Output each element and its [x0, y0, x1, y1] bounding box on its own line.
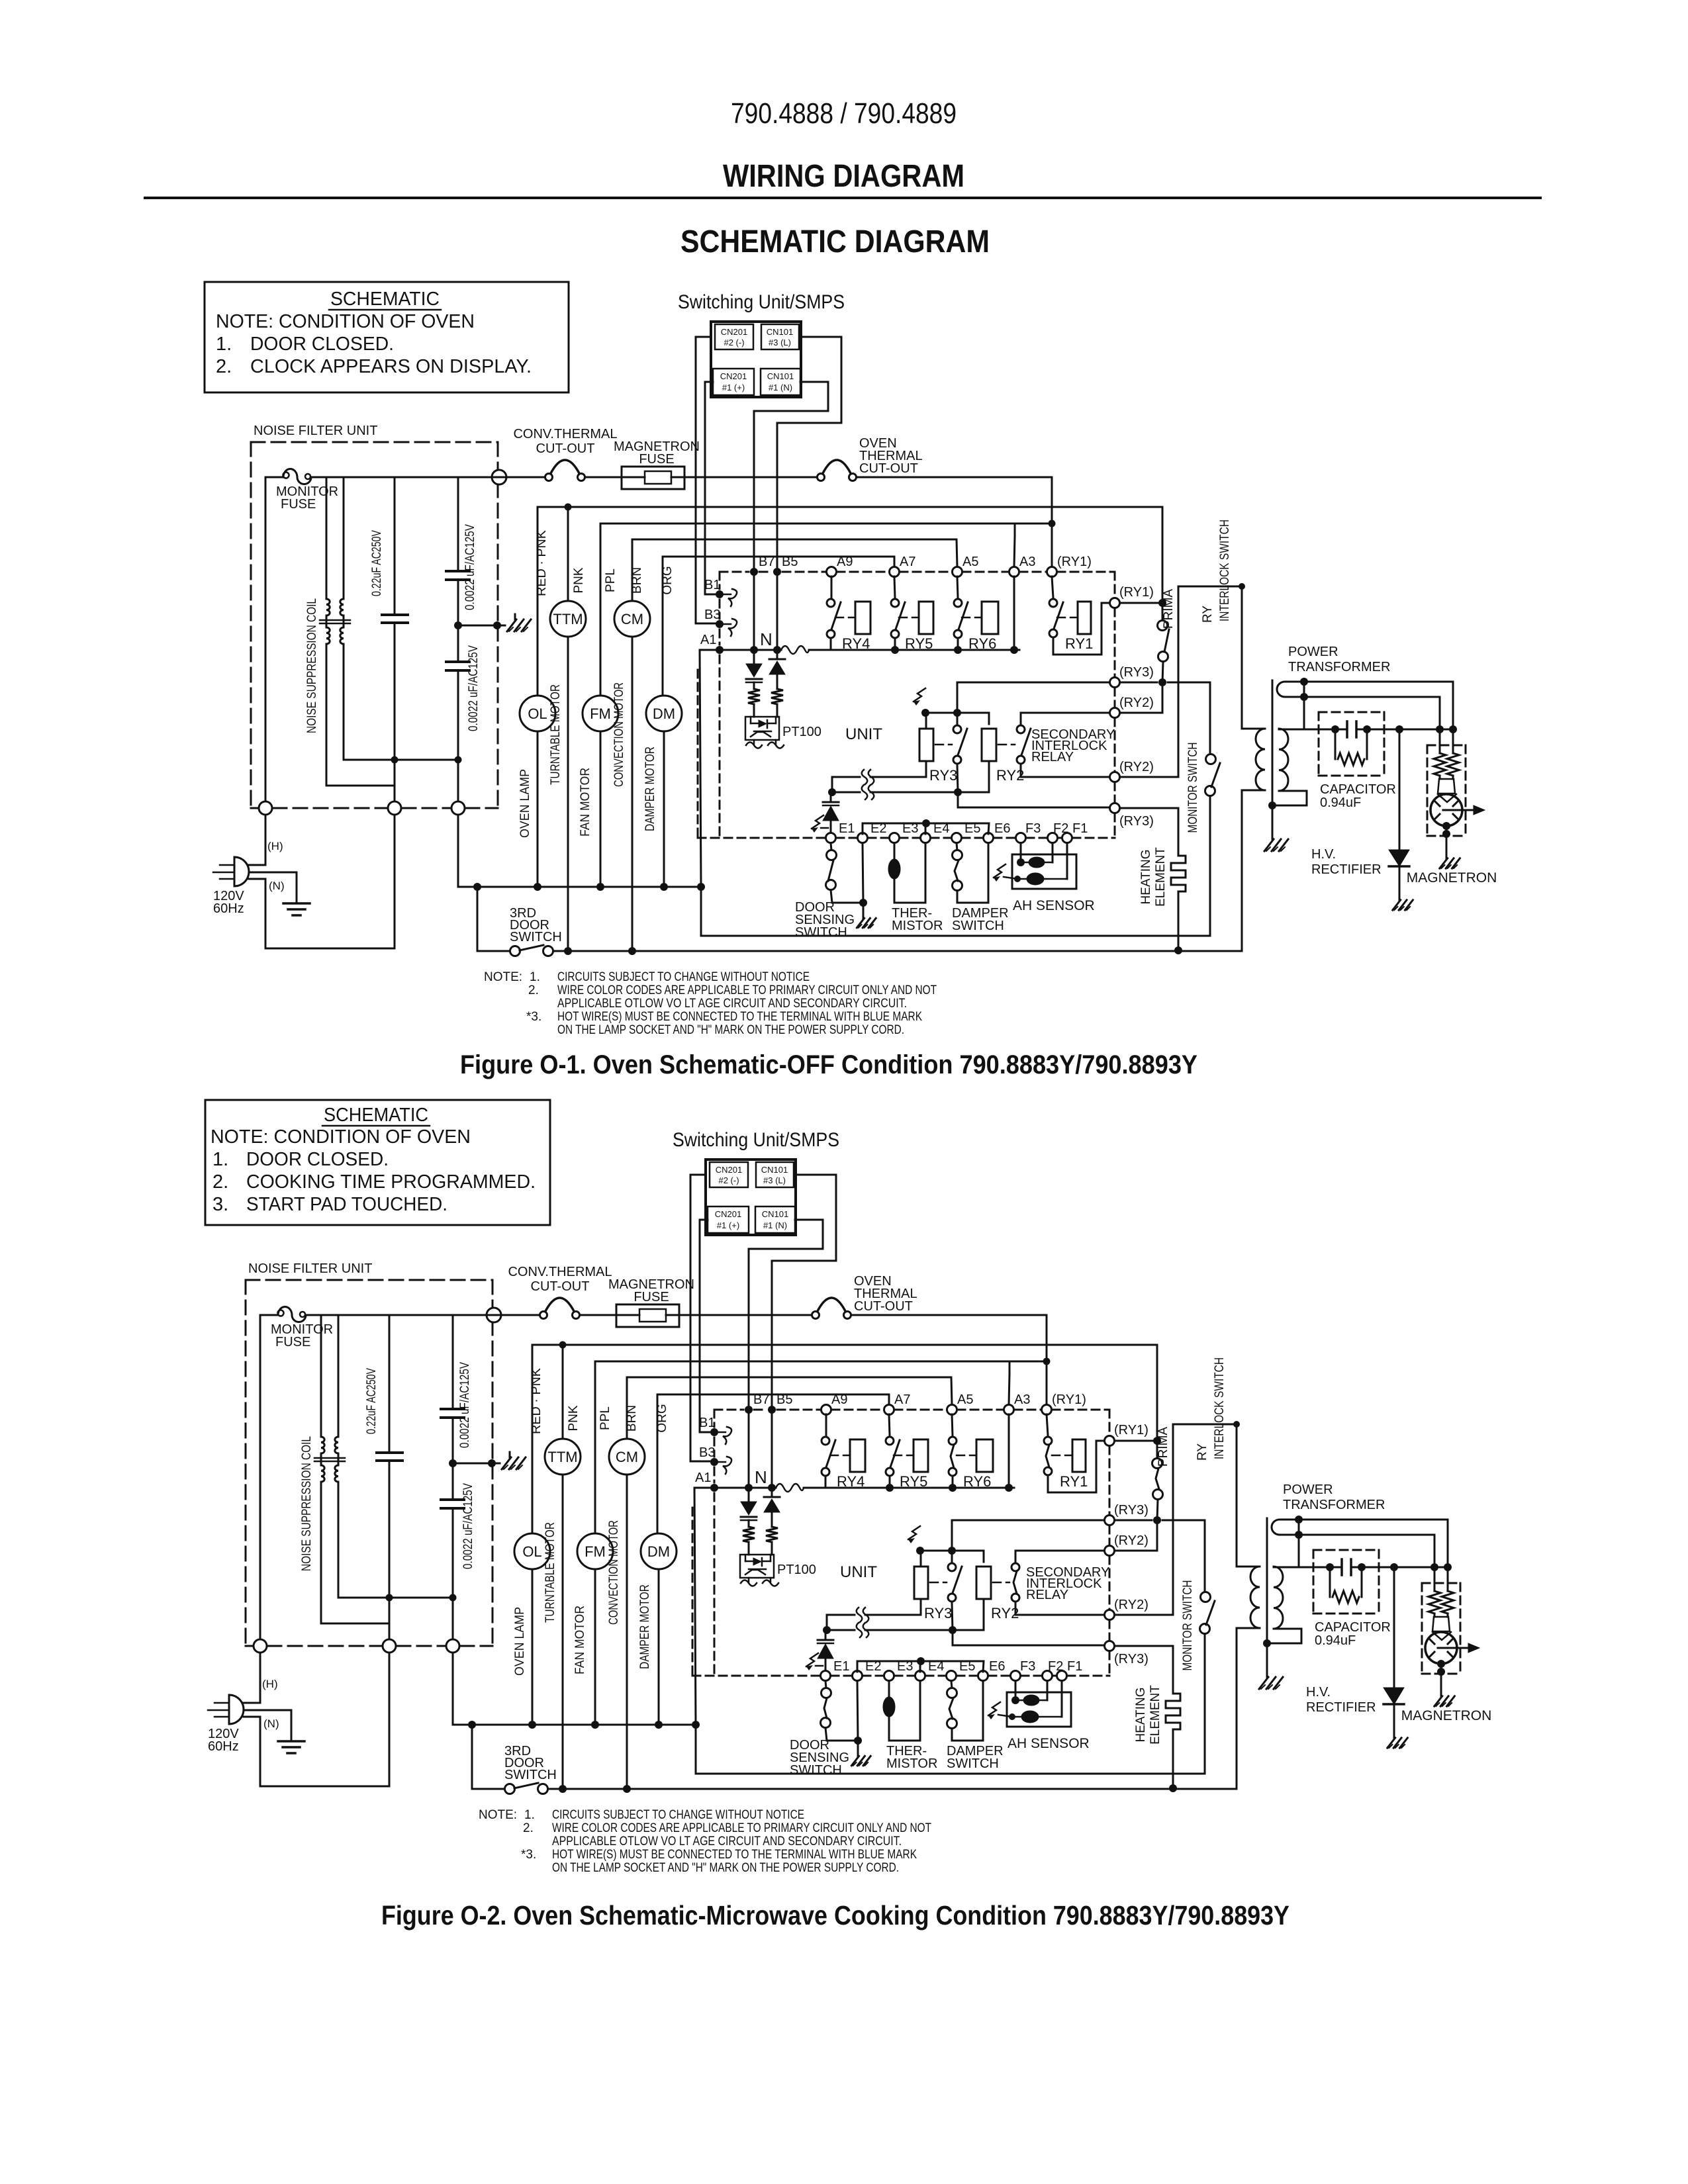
- wire door sensing to ground node: [825, 1728, 858, 1741]
- connector CN101 #1(N): [755, 1206, 795, 1233]
- junction hairpin taps: [1300, 678, 1308, 729]
- label RY2: [996, 767, 1024, 784]
- svg-text:SCHEMATIC: SCHEMATIC: [324, 1105, 428, 1126]
- primary interlock switch: [1152, 1459, 1163, 1500]
- power plug P1: [208, 1695, 260, 1724]
- svg-text:RED · PNK: RED · PNK: [535, 530, 549, 596]
- label AH SENSOR: [1008, 1736, 1090, 1751]
- wire RY3 coil top lead: [920, 1551, 922, 1567]
- label POWER TRANSFORMER: [1283, 1482, 1385, 1512]
- wire bottom bus y1340: [458, 886, 701, 888]
- label OVEN LAMP: [513, 1607, 527, 1676]
- label DAMPER SWITCH: [947, 1744, 1004, 1771]
- conv thermal cut-out S1: [540, 1298, 580, 1319]
- svg-text:0.0022 uF/AC125V: 0.0022 uF/AC125V: [461, 1483, 475, 1569]
- terminal (RY3) upper: [1105, 1503, 1149, 1525]
- opto unit PT100: [745, 717, 779, 740]
- label INTERLOCK SWITCH: [1218, 520, 1232, 621]
- terminal E5: [952, 821, 981, 843]
- terminal circle noise filter bottom left: [259, 801, 272, 815]
- svg-text:PRIMA: PRIMA: [1162, 589, 1176, 629]
- wire E2 drop: [857, 1681, 858, 1741]
- wire SMPS right to B5: [777, 337, 841, 650]
- primary interlock switch: [1158, 621, 1168, 662]
- turntable motor TTM: [545, 1345, 581, 1789]
- svg-text:SCHEMATIC DIAGRAM: SCHEMATIC DIAGRAM: [680, 224, 990, 259]
- svg-text:B1: B1: [699, 1416, 715, 1430]
- chassis ground noise filter: [502, 1452, 526, 1469]
- label RED PNK: [535, 530, 549, 596]
- terminal F2: [1048, 821, 1069, 843]
- convection motor CM: [609, 1377, 645, 1789]
- svg-text:START PAD TOUCHED.: START PAD TOUCHED.: [246, 1194, 447, 1215]
- RY interlock box top: [1178, 583, 1245, 590]
- svg-text:FAN MOTOR: FAN MOTOR: [579, 768, 592, 837]
- svg-text:CONV.THERMAL: CONV.THERMAL: [508, 1265, 612, 1279]
- caption Figure O-1: [460, 1050, 1197, 1079]
- wire SMPS left to B3: [696, 337, 720, 623]
- svg-text:*3.: *3.: [521, 1848, 536, 1862]
- connector CN101 #1(N): [761, 369, 800, 395]
- wire A1 row y982: [700, 649, 1019, 651]
- wire HV bus y1102: [1274, 1567, 1448, 1569]
- terminal (RY1) top: [1047, 555, 1092, 577]
- svg-text:SWITCH: SWITCH: [790, 1763, 842, 1778]
- wire CN101#1 to B7: [754, 382, 828, 650]
- terminal B3: [699, 1445, 731, 1474]
- svg-text:OL: OL: [522, 1543, 541, 1560]
- wire door sensing to ground node: [831, 890, 863, 903]
- label TURNTABLE MOTOR: [543, 1522, 557, 1623]
- junction A1 column tap: [697, 883, 705, 891]
- capacitor 0.0022uF upper: [441, 1315, 464, 1463]
- label RY5: [900, 1473, 927, 1490]
- label RY4: [842, 635, 870, 652]
- svg-text:Switching Unit/SMPS: Switching Unit/SMPS: [673, 1129, 839, 1151]
- junction A3 row: [1005, 1484, 1013, 1492]
- svg-text:DM: DM: [653, 705, 675, 722]
- transformer primary winding: [1242, 729, 1265, 950]
- wire chassis tap: [458, 625, 505, 627]
- connector squiggle A1 row: [781, 646, 809, 654]
- junction N row B5: [773, 646, 781, 654]
- noise suppression coil T1: [314, 1315, 345, 1623]
- label MAGNETRON: [1407, 870, 1497, 886]
- wire PRIMA to (RY3) row: [1157, 1500, 1158, 1520]
- primary interlock blade: [1164, 629, 1169, 652]
- svg-text:N: N: [760, 629, 773, 649]
- svg-text:NOTE: CONDITION OF OVEN: NOTE: CONDITION OF OVEN: [216, 311, 475, 332]
- transformer primary winding: [1237, 1567, 1260, 1788]
- svg-text:A7: A7: [894, 1392, 910, 1407]
- terminal E3: [890, 821, 919, 843]
- wire (RY1) to PRIMA: [1115, 1440, 1157, 1442]
- page title WIRING DIAGRAM: [723, 159, 964, 194]
- svg-text:#3 (L): #3 (L): [763, 1175, 786, 1185]
- svg-text:RECTIFIER: RECTIFIER: [1311, 862, 1382, 877]
- capacitor 0.0022uF lower: [441, 1463, 464, 1639]
- junction RY3 riser-(RY2) row: [948, 1547, 956, 1555]
- svg-text:MISTOR: MISTOR: [892, 919, 943, 933]
- connector hooks under PT100: [741, 1578, 778, 1586]
- label RY4: [837, 1473, 865, 1490]
- svg-text:(RY2): (RY2): [1119, 760, 1154, 774]
- label AH SENSOR: [1013, 898, 1095, 913]
- label N: [755, 1467, 767, 1487]
- svg-text:RY: RY: [1201, 606, 1215, 623]
- caption Figure O-2: [381, 1900, 1289, 1931]
- label FAN MOTOR: [573, 1606, 587, 1674]
- magnetron tube V1: [1430, 794, 1485, 826]
- svg-text:2.: 2.: [212, 1171, 228, 1193]
- svg-text:INTERLOCK SWITCH: INTERLOCK SWITCH: [1218, 520, 1232, 621]
- label INTERLOCK SWITCH: [1213, 1357, 1227, 1459]
- terminal (RY1) right: [1110, 585, 1154, 608]
- junction cap chassis tap: [454, 621, 501, 629]
- monitor switch: [1200, 1592, 1211, 1634]
- svg-text:#1 (N): #1 (N): [763, 1220, 787, 1230]
- label RY1: [1065, 635, 1093, 652]
- capacitor 0.22uF AC250V: [382, 477, 408, 801]
- svg-text:NOTE: CONDITION OF OVEN: NOTE: CONDITION OF OVEN: [211, 1126, 471, 1148]
- junction AH sensor F3: [1017, 858, 1025, 866]
- svg-text:E6: E6: [989, 1659, 1005, 1674]
- svg-text:RELAY: RELAY: [1031, 750, 1074, 764]
- wire (RY3) lower to heating element: [1120, 808, 1178, 856]
- junction magnetron cathode: [1437, 1660, 1445, 1692]
- label 120V 60Hz: [208, 1727, 239, 1754]
- diode D3 above E1: [823, 792, 839, 833]
- spark arrow AH sensor: [994, 864, 1021, 882]
- switching unit SMPS connector block: [706, 1160, 796, 1235]
- svg-text:RY4: RY4: [837, 1473, 865, 1490]
- oven lamp OL: [514, 1345, 550, 1725]
- notes NOTE block: [479, 1808, 931, 1875]
- svg-text:TRANSFORMER: TRANSFORMER: [1288, 660, 1390, 674]
- damper switch: [953, 843, 989, 903]
- terminal E2: [858, 821, 887, 843]
- horizontal rule: [145, 197, 1540, 199]
- 3rd door switch: [472, 1783, 1237, 1794]
- wire PRIMA to (RY2) row: [1115, 1520, 1157, 1551]
- wire (RY3) lower to heating element: [1115, 1646, 1173, 1694]
- wire top bus L1: [265, 477, 1052, 478]
- relay contact RY4: [821, 1414, 849, 1488]
- relay contact RY1: [1049, 576, 1076, 637]
- label THER-MISTOR: [886, 1744, 937, 1771]
- svg-text:CN201: CN201: [716, 1165, 742, 1175]
- wire PRIMA column drop: [1156, 1345, 1158, 1458]
- wire A1 drop left: [700, 650, 701, 887]
- transformer filament hairpin: [1272, 1520, 1448, 1535]
- connector CN201 #1(+): [708, 1206, 749, 1233]
- svg-text:PT100: PT100: [782, 725, 821, 739]
- monitor switch blade: [1206, 1601, 1215, 1625]
- chassis ground door sensing: [857, 903, 876, 928]
- chassis ground magnetron: [1434, 1692, 1455, 1706]
- wire cap2 to bottom bus: [453, 1653, 472, 1725]
- diode D1 (B7 leg): [741, 1488, 757, 1527]
- svg-text:RY4: RY4: [842, 635, 870, 652]
- relay coil RY2: [982, 729, 996, 761]
- terminal circle noise filter bottom right: [446, 1639, 459, 1653]
- wire bottom left loop: [265, 815, 395, 948]
- wire bottom left loop: [260, 1653, 389, 1786]
- wire left mains vertical: [265, 477, 267, 948]
- transformer filament hairpin: [1277, 682, 1453, 697]
- spark arrow at E1: [812, 815, 828, 833]
- diode D1 (B7 leg): [746, 650, 762, 689]
- label OVEN LAMP: [518, 769, 532, 838]
- terminal A1: [700, 633, 724, 654]
- AH sensor element upper: [1021, 843, 1053, 868]
- junction RY6 row: [949, 1484, 957, 1492]
- earth ground plug: [278, 1741, 305, 1753]
- junction OL tap: [534, 883, 541, 891]
- label UNIT: [845, 725, 882, 743]
- terminal A7: [884, 1392, 911, 1415]
- junction RY3 coil top: [921, 709, 929, 717]
- magnetron fuse F2: [622, 467, 684, 489]
- terminal (RY1) right: [1105, 1423, 1149, 1446]
- terminal B1: [704, 578, 737, 606]
- wire chassis tap: [453, 1463, 500, 1465]
- AH sensor box: [1012, 854, 1076, 889]
- svg-text:PPL: PPL: [604, 569, 618, 592]
- wire bus fan motor y791: [600, 523, 1052, 525]
- svg-text:MAGNETRON: MAGNETRON: [1407, 870, 1497, 886]
- diode D2 (B5 leg): [769, 650, 785, 689]
- label TURNTABLE MOTOR: [549, 684, 563, 785]
- svg-text:E1: E1: [839, 821, 855, 836]
- noise filter unit dashed box: [251, 442, 498, 808]
- label SECONDARY INTERLOCK RELAY: [1031, 727, 1115, 764]
- svg-text:1.: 1.: [216, 334, 232, 355]
- chassis ground transformer: [1264, 834, 1288, 851]
- label DOOR SENSING SWITCH: [795, 900, 855, 940]
- label SECONDARY INTERLOCK RELAY: [1026, 1565, 1109, 1602]
- unit boundary dashed secondary left: [697, 670, 699, 838]
- svg-text:SWITCH: SWITCH: [947, 1756, 999, 1771]
- svg-text:WIRING DIAGRAM: WIRING DIAGRAM: [723, 159, 964, 194]
- svg-text:DOOR CLOSED.: DOOR CLOSED.: [250, 334, 394, 355]
- wire unit row y1197 with break: [832, 761, 989, 792]
- unit boundary dashed top B7-B5-A9-A7-A5-A3: [714, 1409, 1109, 1411]
- page header model numbers: [731, 97, 957, 130]
- svg-text:F3: F3: [1025, 821, 1041, 836]
- junction cap2 bottom: [455, 756, 462, 764]
- svg-text:#1 (+): #1 (+): [722, 383, 745, 392]
- junction N row B7: [745, 1484, 753, 1492]
- svg-text:A1: A1: [700, 633, 716, 647]
- terminal A3: [1004, 1392, 1031, 1415]
- relay coil RY6: [982, 602, 998, 634]
- wire (RY2) row right piece: [1021, 713, 1109, 724]
- terminal E6: [984, 821, 1011, 843]
- chassis ground HV rectifier: [1393, 895, 1413, 910]
- svg-text:(RY2): (RY2): [1119, 696, 1154, 710]
- junction FM tap: [591, 1721, 599, 1729]
- magnetron filament: [1434, 682, 1459, 802]
- chassis ground magnetron: [1440, 854, 1460, 868]
- wire bus oven lamp y766: [532, 1344, 1157, 1346]
- label ORG: [661, 566, 675, 594]
- svg-text:ORG: ORG: [655, 1404, 669, 1432]
- junction door sensing-E2: [859, 899, 867, 907]
- junction PRIMA-(RY3): [1153, 1516, 1161, 1524]
- junction 3rd-door tap: [473, 883, 481, 891]
- terminal B7: [750, 555, 774, 576]
- wire RY1 loop to (RY1) contact: [1048, 1441, 1104, 1492]
- svg-text:CN201: CN201: [720, 371, 747, 381]
- wire interlock right to transformer top: [1237, 1424, 1260, 1567]
- terminal (RY2) lower: [1105, 1598, 1149, 1620]
- wire (RY2) lower to interlock box: [1115, 1424, 1173, 1615]
- svg-text:NOISE SUPPRESSION COIL: NOISE SUPPRESSION COIL: [300, 1436, 314, 1571]
- unit boundary dashed left: [719, 572, 721, 838]
- junction heating element bottom: [1174, 946, 1182, 954]
- AH sensor element upper: [1015, 1681, 1047, 1706]
- svg-text:SWITCH: SWITCH: [952, 919, 1004, 933]
- wire (RY3) row y1031: [952, 1520, 1205, 1592]
- terminal B5: [768, 1392, 792, 1414]
- wire (RY2) row left piece: [925, 713, 989, 724]
- svg-text:#1 (+): #1 (+): [717, 1220, 739, 1230]
- svg-text:A3: A3: [1014, 1392, 1030, 1407]
- svg-text:2.: 2.: [216, 356, 232, 377]
- terminal A5: [947, 1392, 974, 1415]
- wire bus damper motor y841: [657, 1394, 889, 1404]
- relay coil RY3: [919, 729, 933, 761]
- junction core tap: [1263, 1639, 1271, 1647]
- svg-text:#2 (-): #2 (-): [718, 1175, 739, 1185]
- monitor switch blade: [1211, 763, 1220, 787]
- wire (RY2) lower to interlock box: [1120, 586, 1178, 777]
- wire SMPS left to B3: [690, 1175, 714, 1461]
- terminal (RY2) upper: [1105, 1533, 1149, 1556]
- svg-text:PPL: PPL: [598, 1406, 612, 1430]
- relay contact RY6: [949, 1414, 975, 1488]
- magnetron tube V1: [1425, 1632, 1479, 1664]
- junction HV bus taps: [1326, 1563, 1452, 1571]
- junction TTM bottom: [564, 947, 572, 955]
- wire (RY2) row right piece: [1015, 1551, 1104, 1562]
- wire PRIMA to (RY2) row: [1120, 682, 1162, 713]
- capacitor 0.22uF AC250V: [377, 1315, 402, 1639]
- resistor R1 (B7 leg): [743, 1527, 755, 1555]
- svg-text:3.: 3.: [212, 1194, 228, 1215]
- label (H): [262, 1678, 278, 1690]
- conv thermal cut-out S1: [545, 460, 585, 481]
- schematic note box (figure O-2): [205, 1100, 550, 1225]
- label MONITOR SWITCH: [1186, 743, 1200, 833]
- label (N): [269, 880, 285, 892]
- svg-text:(N): (N): [263, 1717, 279, 1730]
- svg-text:RECTIFIER: RECTIFIER: [1306, 1700, 1376, 1715]
- svg-text:RY3: RY3: [929, 767, 957, 784]
- wire RY1 loop to (RY1) contact: [1053, 603, 1109, 655]
- label DAMPER SWITCH: [952, 906, 1009, 933]
- label 0.22uF AC250V: [370, 530, 384, 596]
- wire CN101#1 to B7: [749, 1220, 823, 1488]
- svg-text:(RY1): (RY1): [1057, 555, 1092, 569]
- terminal F1: [1057, 1659, 1083, 1681]
- label 0.0022 uF/AC125V lower: [461, 1483, 475, 1569]
- svg-text:HEATING: HEATING: [1139, 849, 1153, 904]
- junction RY3 contact drop: [949, 1603, 957, 1634]
- unit boundary dashed right (RY linkage): [1114, 572, 1116, 838]
- svg-text:B7: B7: [759, 555, 774, 569]
- svg-text:(RY3): (RY3): [1119, 814, 1154, 829]
- svg-text:PNK: PNK: [572, 567, 586, 593]
- junction TTM bus: [559, 1342, 567, 1349]
- svg-text:PRIMA: PRIMA: [1156, 1427, 1170, 1467]
- wire RY2 contact to (RY2) lower row: [1021, 765, 1109, 777]
- thermistor TH1: [888, 843, 925, 903]
- junction A1 column tap: [692, 1721, 700, 1729]
- svg-text:NOTE:: NOTE:: [479, 1808, 517, 1822]
- svg-text:FUSE: FUSE: [275, 1335, 310, 1349]
- wire CN201#1 to B1: [705, 382, 720, 594]
- terminal F2: [1043, 1659, 1064, 1681]
- label DOOR SENSING SWITCH: [790, 1738, 849, 1778]
- damper motor DM: [646, 557, 682, 887]
- label H.V. RECTIFIER: [1311, 847, 1382, 877]
- svg-text:Figure O-1. Oven Schematic-OFF: Figure O-1. Oven Schematic-OFF Condition…: [460, 1050, 1197, 1079]
- svg-text:790.4888 / 790.4889: 790.4888 / 790.4889: [731, 97, 957, 130]
- label OVEN THERMAL CUT-OUT: [854, 1274, 917, 1314]
- svg-text:CN201: CN201: [715, 1209, 741, 1219]
- svg-text:HOT WIRE(S) MUST BE CONNECTED: HOT WIRE(S) MUST BE CONNECTED TO THE TER…: [552, 1848, 917, 1862]
- svg-text:FM: FM: [590, 705, 611, 722]
- svg-text:(RY3): (RY3): [1119, 665, 1154, 680]
- AH sensor element lower: [1017, 843, 1067, 885]
- junction PRIMA-(RY1): [1153, 1437, 1161, 1445]
- terminal A9: [827, 555, 853, 577]
- wire coil left to cap junction: [321, 1623, 389, 1625]
- terminal A5: [953, 555, 979, 577]
- svg-text:NOISE SUPPRESSION COIL: NOISE SUPPRESSION COIL: [305, 598, 319, 733]
- resistor R3 bleed: [1330, 1567, 1362, 1603]
- terminal (RY1) top: [1042, 1392, 1086, 1415]
- terminal E2: [853, 1659, 882, 1681]
- svg-text:A5: A5: [962, 555, 978, 569]
- svg-text:0.94uF: 0.94uF: [1315, 1633, 1356, 1648]
- svg-text:(RY1): (RY1): [1052, 1392, 1086, 1407]
- svg-text:DAMPER MOTOR: DAMPER MOTOR: [638, 1584, 652, 1669]
- junction RY3 coil top: [916, 1547, 924, 1555]
- magnetron dashed box: [1422, 1583, 1460, 1674]
- svg-text:TTM: TTM: [547, 1449, 577, 1465]
- HV rectifier D4: [1389, 729, 1409, 895]
- terminal E5: [947, 1659, 976, 1681]
- diode D3 above E1: [818, 1630, 833, 1671]
- label POWER TRANSFORMER: [1288, 645, 1390, 674]
- svg-text:INTERLOCK SWITCH: INTERLOCK SWITCH: [1213, 1357, 1227, 1459]
- oven thermal cut-out S2: [812, 1298, 851, 1319]
- terminal circle noise filter bottom right: [451, 801, 465, 815]
- svg-text:HEATING: HEATING: [1134, 1687, 1148, 1742]
- svg-text:BRN: BRN: [625, 1405, 639, 1432]
- wire plug earth lead: [250, 872, 297, 903]
- fan motor FM: [583, 523, 618, 887]
- svg-text:CN101: CN101: [767, 327, 793, 337]
- svg-text:ELEMENT: ELEMENT: [1154, 847, 1168, 907]
- wire HV bus y1102: [1279, 729, 1453, 731]
- relay contact RY3: [930, 1563, 962, 1602]
- capacitor box dashed: [1319, 712, 1384, 776]
- wire PRIMA column drop: [1162, 507, 1164, 620]
